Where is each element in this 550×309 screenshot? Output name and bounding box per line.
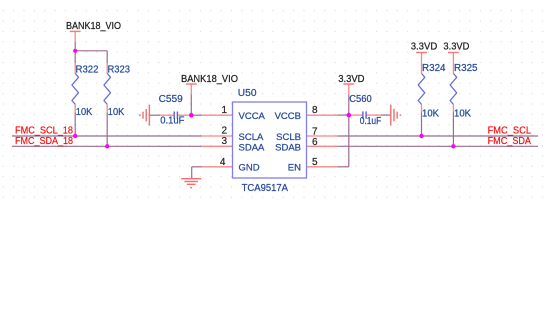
svg-text:GND: GND [239,163,260,174]
svg-text:EN: EN [288,163,301,174]
svg-text:SDAA: SDAA [239,142,266,153]
svg-text:10K: 10K [76,107,93,118]
svg-text:4: 4 [220,157,226,168]
svg-text:R323: R323 [108,64,131,75]
svg-text:C559: C559 [159,94,184,105]
svg-text:SDAB: SDAB [275,142,301,153]
svg-text:1: 1 [221,105,227,116]
svg-text:5: 5 [312,157,318,168]
svg-text:R322: R322 [76,64,99,75]
svg-text:0.1uF: 0.1uF [160,115,184,126]
svg-text:10K: 10K [108,107,125,118]
svg-text:FMC_SDA_18: FMC_SDA_18 [15,136,73,147]
svg-text:FMC_SCL_18: FMC_SCL_18 [15,126,73,137]
svg-text:3: 3 [221,136,227,147]
svg-text:3.3VD: 3.3VD [443,42,469,53]
svg-text:7: 7 [312,126,318,137]
svg-text:10K: 10K [454,109,471,120]
svg-text:BANK18_VIO: BANK18_VIO [181,74,238,85]
svg-text:C560: C560 [349,94,372,105]
svg-text:10K: 10K [422,109,439,120]
svg-text:0.1uF: 0.1uF [360,116,382,127]
svg-text:3.3VD: 3.3VD [411,42,438,53]
svg-text:6: 6 [312,137,318,148]
svg-text:3.3VD: 3.3VD [338,74,364,85]
svg-text:TCA9517A: TCA9517A [242,183,289,194]
svg-text:VCCA: VCCA [239,111,266,122]
svg-text:FMC_SCL: FMC_SCL [488,126,532,137]
svg-text:2: 2 [221,126,227,137]
svg-text:8: 8 [312,105,318,116]
svg-text:R325: R325 [454,63,478,74]
svg-text:BANK18_VIO: BANK18_VIO [66,21,121,32]
svg-text:FMC_SDA: FMC_SDA [488,136,532,147]
svg-text:U50: U50 [238,88,257,99]
svg-text:R324: R324 [422,63,446,74]
svg-text:VCCB: VCCB [275,111,301,122]
